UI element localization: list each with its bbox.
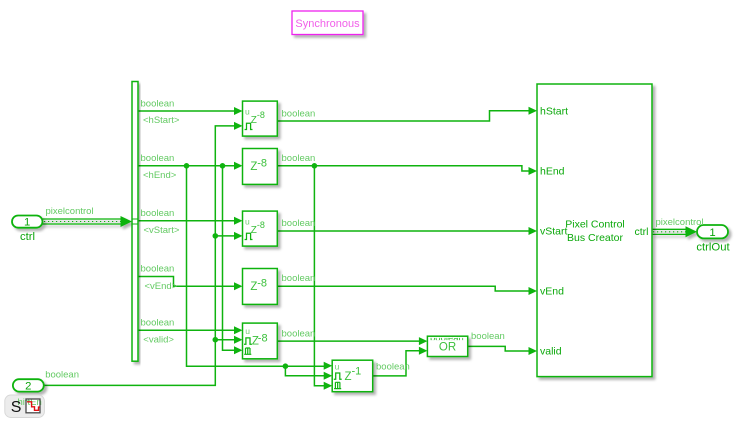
svg-text:-8: -8: [257, 157, 267, 169]
svg-text:<hStart>: <hStart>: [143, 115, 180, 126]
svg-text:u: u: [335, 361, 340, 371]
junction delayed hEnd to z-1 reset: [312, 163, 318, 169]
delay block valid (enabled, reset): [243, 323, 278, 359]
svg-text:pixelcontrol: pixelcontrol: [46, 206, 94, 217]
annotation Synchronous: [292, 11, 363, 35]
bus wire ctrl input: [43, 216, 133, 227]
svg-text:S: S: [11, 399, 22, 416]
junction hEnd to unit delay branch: [184, 163, 190, 169]
wire hEnd branch to unit delay u and enable: [187, 166, 326, 376]
svg-text:1: 1: [24, 217, 30, 229]
wire delayed hEnd to bus creator: [277, 166, 529, 171]
red sample-time staircase icon: [26, 399, 40, 413]
inport 2 shiftEn: [13, 379, 44, 392]
svg-text:pixelcontrol: pixelcontrol: [656, 217, 704, 228]
bus wire ctrlOut: [652, 226, 697, 237]
svg-text:Bus Creator: Bus Creator: [567, 232, 624, 244]
wire row5 valid from bus selector: [138, 329, 235, 331]
wire delayed valid to OR: [277, 340, 420, 342]
logical operator OR: [427, 336, 467, 356]
wire row4 vEnd from bus selector: [138, 277, 235, 287]
wire delayed vStart to bus creator: [277, 230, 529, 232]
svg-text:hStart: hStart: [540, 106, 568, 118]
wire row1 hStart from bus selector: [138, 110, 235, 112]
svg-text:<vEnd>: <vEnd>: [145, 281, 178, 292]
svg-text:<hEnd>: <hEnd>: [143, 170, 177, 181]
junction hEnd to valid reset branch: [220, 163, 226, 169]
sample time badge: [5, 395, 45, 418]
delay block vStart (enabled): [243, 211, 278, 246]
svg-text:boolean: boolean: [141, 98, 175, 109]
wire hEnd branch to valid delay reset: [223, 166, 236, 350]
svg-text:<vStart>: <vStart>: [144, 225, 180, 236]
svg-text:ctrlOut: ctrlOut: [696, 241, 730, 253]
delay block hStart (enabled): [243, 101, 278, 136]
junction shiftEn to vStart delay enable: [213, 233, 219, 239]
wire delayed hStart to bus creator: [277, 111, 529, 121]
svg-text:1: 1: [709, 227, 715, 239]
svg-text:boolean: boolean: [282, 153, 316, 164]
wire delayed vEnd to bus creator: [277, 286, 529, 291]
svg-text:Z: Z: [345, 371, 352, 383]
svg-text:boolean: boolean: [141, 208, 175, 219]
wire shiftEn distribution: [44, 126, 235, 386]
svg-text:vEnd: vEnd: [540, 286, 564, 298]
wire row3 vStart from bus selector: [138, 220, 235, 222]
svg-text:boolean: boolean: [282, 218, 316, 229]
junction hEnd branch to z-1 enable: [283, 363, 289, 369]
delay block hEnd Z-8: [243, 149, 278, 185]
svg-text:-8: -8: [258, 333, 268, 345]
svg-text:2: 2: [25, 381, 31, 393]
svg-text:boolean: boolean: [282, 273, 316, 284]
wire OR out to bus creator valid: [468, 346, 530, 351]
svg-text:boolean: boolean: [471, 331, 505, 342]
svg-text:<valid>: <valid>: [143, 334, 174, 345]
svg-text:boolean: boolean: [141, 318, 175, 329]
svg-text:Pixel Control: Pixel Control: [565, 219, 625, 231]
svg-text:boolean: boolean: [376, 362, 410, 373]
svg-text:boolean: boolean: [141, 153, 175, 164]
outport 1 ctrlOut: [697, 225, 728, 239]
svg-text:-8: -8: [257, 220, 265, 230]
delay block vEnd Z-8: [243, 269, 278, 305]
wire row2 hEnd from bus selector: [138, 165, 235, 167]
unit delay z-1 (enabled, reset): [332, 360, 373, 392]
wire delayed hEnd down to z-1 reset: [314, 166, 325, 386]
svg-text:-1: -1: [352, 366, 362, 378]
svg-text:hEnd: hEnd: [540, 166, 565, 178]
svg-text:boolean: boolean: [282, 108, 316, 119]
svg-text:ctrl: ctrl: [20, 231, 35, 243]
svg-text:boolean: boolean: [45, 370, 79, 381]
svg-text:vStart: vStart: [540, 226, 568, 238]
svg-text:boolean: boolean: [141, 264, 175, 275]
svg-text:-8: -8: [257, 110, 265, 120]
svg-text:-8: -8: [257, 277, 267, 289]
svg-text:u: u: [245, 326, 250, 336]
svg-text:OR: OR: [439, 342, 456, 354]
arrowheads: [234, 107, 537, 390]
inport 1 ctrl: [12, 216, 43, 229]
bus creator Pixel Control Bus Creator: [537, 84, 652, 377]
svg-text:ctrl: ctrl: [635, 226, 649, 238]
bus selector: [132, 82, 138, 362]
wire z-1 out up to OR: [373, 351, 420, 376]
junction shiftEn to valid delay enable: [213, 337, 219, 343]
svg-text:u: u: [245, 217, 250, 227]
svg-text:Synchronous: Synchronous: [295, 18, 360, 30]
svg-text:valid: valid: [540, 346, 562, 358]
svg-text:boolean: boolean: [282, 328, 316, 339]
svg-text:u: u: [245, 107, 250, 117]
